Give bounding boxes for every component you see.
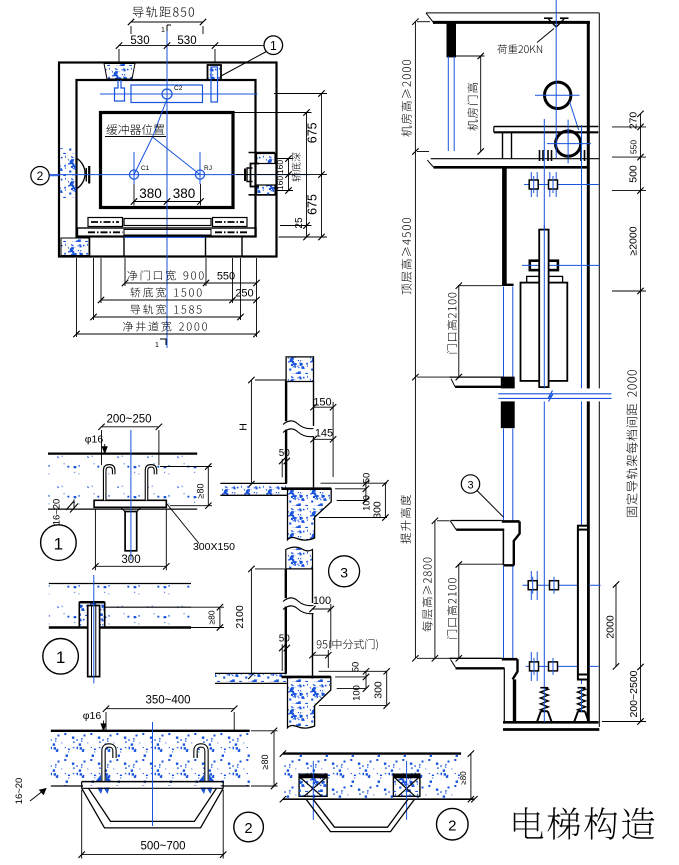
elev: left dim line main — [414, 22, 416, 659]
det1a: J-hook anchor right — [147, 466, 156, 501]
mid: detail circle 3 — [329, 556, 360, 587]
elev: machine room door blue lines — [447, 57, 449, 152]
det2b: embed block right — [393, 774, 420, 796]
plan: counterweight circle C2 — [162, 89, 172, 99]
mid: upper wall lines — [285, 381, 287, 484]
det1a: dim 300 — [94, 509, 96, 570]
elev: dim 机房高>=2000 — [401, 60, 411, 137]
svg-text:160: 160 — [275, 160, 285, 174]
elev: right dim line main — [640, 114, 642, 722]
plan: buffer diagonal lines blue — [153, 99, 168, 137]
svg-text:≥2000: ≥2000 — [628, 226, 640, 255]
det2b: dim >=80 — [470, 754, 472, 800]
mid: upper wall concrete top block — [286, 357, 313, 382]
elev: right outer thin line — [598, 13, 600, 727]
svg-text:50: 50 — [362, 473, 373, 484]
svg-text:100: 100 — [352, 685, 363, 701]
svg-text:1: 1 — [270, 39, 277, 53]
svg-text:550: 550 — [217, 271, 235, 283]
plan: counterweight blue line — [100, 93, 258, 95]
svg-text:675: 675 — [306, 122, 320, 143]
plan: car wall (thick) — [101, 113, 234, 208]
svg-text:3: 3 — [340, 565, 348, 581]
plan: guide rail blue top-right — [211, 67, 218, 102]
elev: car top step — [527, 276, 563, 282]
det1b: concrete band — [49, 585, 191, 628]
plan: circle 2 left — [31, 167, 49, 185]
elev: dim text 固定导轨架每档间距2000 — [626, 370, 637, 517]
plan: dim 净井道宽2000 — [123, 321, 207, 331]
plan: blue vertical centerline — [166, 28, 168, 348]
svg-text:675: 675 — [306, 194, 320, 215]
elev: car crosshead — [530, 261, 558, 270]
svg-text:500: 500 — [628, 165, 640, 183]
plan: concrete patch left wall — [60, 148, 76, 199]
svg-text:≥80: ≥80 — [196, 484, 206, 499]
elev: leader circle 3 — [461, 475, 479, 493]
det2b: concrete band — [283, 755, 461, 799]
svg-text:300: 300 — [373, 681, 385, 699]
plan: right rail shoe bracket — [251, 164, 260, 187]
mid: dim 95 中分式门 — [317, 639, 378, 650]
plan: counterweight blue rect — [131, 85, 203, 103]
elev: car rope blue centerline — [543, 119, 545, 688]
det2a: dim >=80 — [251, 730, 278, 732]
plan: right wall rail bracket — [249, 152, 276, 154]
mid: lower landing slab — [215, 674, 287, 683]
svg-text:100: 100 — [313, 595, 331, 607]
svg-text:270: 270 — [628, 112, 640, 130]
plan: cwt rail shoe left (blue) — [115, 80, 125, 101]
svg-text:RJ: RJ — [204, 165, 212, 172]
det2a: concrete band — [51, 732, 250, 786]
plan: concrete patch bottom-left — [61, 238, 89, 256]
svg-text:300: 300 — [372, 501, 384, 519]
det1b: guide rail bar — [88, 606, 100, 677]
svg-text:50: 50 — [279, 448, 291, 459]
elev: rail clip row low — [526, 665, 599, 667]
elev: hook blue centerline — [555, 0, 557, 62]
plan: label 缓冲器位置 — [106, 124, 164, 135]
det1a: anchor plate 300X150 — [94, 500, 166, 507]
svg-text:1: 1 — [155, 342, 159, 349]
svg-text:380: 380 — [173, 186, 196, 201]
plan: left wall blob arc — [77, 159, 85, 189]
det1b: blue centerline — [93, 575, 95, 683]
elev: lower door blue lines — [503, 566, 505, 658]
plan view: hoistway outer wall — [59, 63, 277, 257]
det2a: detail circle 2 — [234, 812, 264, 842]
svg-text:≥80: ≥80 — [260, 755, 270, 770]
det2a: J-hook left — [104, 746, 115, 782]
plan: buffer stop bars left — [85, 168, 87, 182]
plan: section mark 1 top — [167, 25, 171, 31]
elev: wall segment below top landing — [501, 377, 514, 428]
plan: right dims 675/675 — [274, 93, 327, 95]
svg-text:φ16: φ16 — [83, 710, 102, 722]
elev: machine room floor slab — [431, 158, 600, 160]
svg-text:1: 1 — [54, 535, 63, 554]
plan: bottom dim extensions — [76, 258, 78, 337]
det1b: embedded block — [79, 603, 104, 628]
elev: right shaft wall thick — [587, 21, 590, 723]
plan: concrete patch top-left — [104, 64, 135, 80]
svg-text:C1: C1 — [141, 165, 150, 172]
svg-text:300X150: 300X150 — [193, 541, 235, 553]
plan: dim 25 and car line — [234, 112, 312, 114]
det1a: detail circle 1 — [41, 525, 77, 561]
elev: label 荷重20KN — [497, 44, 542, 54]
elev: rope hole marks — [539, 150, 541, 161]
plan: buffer circle RJ — [195, 170, 204, 179]
elev: dim 每层高>=2800 — [434, 521, 436, 659]
mid: lower wall concrete top block — [286, 547, 313, 569]
elev: car buffer spring — [540, 687, 548, 689]
elev: bottom landing floor slab — [450, 657, 502, 659]
elev: counterweight blue centerline — [581, 125, 583, 684]
det1b: detail circle 1 — [43, 639, 79, 675]
svg-text:2: 2 — [37, 169, 44, 183]
elev: load hook symbol — [544, 17, 553, 19]
svg-text:2100: 2100 — [234, 605, 246, 629]
det1a: concrete band — [48, 455, 197, 509]
elev: counterweight buffer spring — [578, 687, 586, 689]
det2a: blue weld marks right — [199, 775, 215, 782]
plan: rail bracket top-right box — [208, 65, 222, 80]
elev: guide rail blue pair right — [549, 172, 551, 197]
svg-text:200~250: 200~250 — [106, 414, 151, 426]
mid: upper sill nib mass — [288, 489, 332, 540]
det1a: J-hook anchor left — [105, 466, 114, 501]
elev: dim 机房门高 — [455, 55, 485, 57]
plan: buffer circle C1 — [129, 170, 138, 179]
det2a: sill channel — [82, 781, 224, 783]
elev: guide rail blue pair left — [530, 172, 532, 197]
svg-text:500~700: 500~700 — [140, 841, 185, 853]
plan: dim 轿底宽1500 250 — [130, 287, 201, 297]
elev: break band across shaft — [498, 388, 613, 401]
svg-text:145: 145 — [315, 428, 333, 440]
elev: machine room ceiling thick — [433, 21, 590, 24]
mid: lower wall lines — [285, 569, 287, 674]
svg-text:350~400: 350~400 — [145, 695, 190, 707]
mid: upper wall break squiggle — [284, 421, 288, 429]
det2b: blue centerlines — [312, 761, 314, 820]
elev: machine room roof thin line — [426, 12, 599, 14]
elev: mid landing floor slab — [451, 520, 502, 522]
plan view: hoistway inner wall — [77, 80, 256, 237]
mid: dim H — [250, 380, 252, 484]
elev: dim 2000 inner — [615, 585, 617, 667]
svg-text:1: 1 — [161, 27, 165, 34]
elev: upper door blue lines — [503, 287, 505, 378]
det2a: blue weld marks left — [96, 775, 112, 782]
elev: machine room left wall — [448, 22, 456, 56]
svg-text:2000: 2000 — [605, 615, 617, 639]
elev: car body — [521, 283, 568, 381]
svg-text:200~2500: 200~2500 — [628, 670, 640, 717]
det2a: blue centerline — [152, 722, 154, 826]
title: 电梯构造 — [514, 807, 655, 839]
svg-text:2: 2 — [245, 821, 253, 837]
elev: counterweight — [578, 526, 588, 680]
svg-text:150: 150 — [313, 397, 331, 409]
elev: dim 门口高2100 lower — [459, 563, 503, 565]
mid: upper landing slab — [220, 484, 286, 495]
svg-text:2: 2 — [448, 818, 456, 835]
mid: dim 2100 — [250, 569, 252, 676]
svg-text:160: 160 — [275, 176, 285, 190]
plan: top dim 导轨距850 — [133, 6, 194, 17]
svg-text:50: 50 — [279, 634, 291, 645]
plan: blue horizontal centerline — [49, 174, 310, 176]
elev: car sling vertical bar — [539, 230, 548, 388]
det2a: J-hook right — [196, 746, 207, 782]
elev: shaft left wall top section — [502, 167, 507, 284]
elev: dim 顶层高>=4500 — [401, 218, 412, 294]
svg-text:25: 25 — [294, 217, 305, 229]
svg-text:16~20: 16~20 — [52, 499, 63, 526]
det2b: embed block left — [299, 774, 327, 796]
svg-text:50: 50 — [351, 662, 362, 673]
elev: mid door blue lines — [503, 429, 505, 521]
plan: leader circle 1 — [264, 36, 283, 55]
det1b: dim >=80 — [191, 606, 224, 608]
mid: upper sill nib top thick line — [282, 487, 332, 490]
elev: rope diagonal blue — [570, 102, 579, 131]
plan: dim 净门口宽900 550 — [127, 270, 203, 280]
svg-text:≥80: ≥80 — [459, 771, 468, 785]
plan: dim 160 160 — [288, 159, 290, 191]
svg-text:250: 250 — [235, 288, 253, 300]
det2b: detail circle 2 — [437, 808, 469, 840]
svg-text:φ16: φ16 — [85, 434, 104, 446]
svg-text:550: 550 — [629, 140, 639, 154]
svg-text:300: 300 — [121, 554, 140, 566]
plan: door sill assembly row1 — [88, 218, 123, 227]
plan: label 轿底深 vertical — [292, 153, 301, 182]
svg-text:≥80: ≥80 — [207, 610, 217, 624]
elev: machine beam double line — [494, 126, 599, 128]
mid: lower right dim stack — [319, 670, 387, 672]
elev: rail clip row machine level — [524, 184, 599, 186]
elev: top landing floor slab — [450, 376, 504, 378]
svg-text:16~20: 16~20 — [14, 778, 25, 805]
plan: section mark 1 bottom — [160, 339, 166, 345]
elev: beam support legs — [502, 132, 504, 158]
svg-text:1: 1 — [56, 648, 65, 667]
elev: pit left wall — [513, 679, 516, 722]
det1a: blue centerline — [130, 430, 132, 560]
plan: dim 导轨宽1585 — [131, 304, 202, 314]
elev: dim 门口高2100 upper — [458, 285, 502, 287]
plan: door opening blue line — [124, 236, 206, 238]
plan: bottom wall piers — [89, 237, 91, 257]
elev: rail clip row mid — [523, 584, 601, 586]
det2b: sill channel — [306, 799, 415, 831]
elev: pit floor — [503, 721, 599, 724]
mid: upper right dim stack — [321, 482, 388, 484]
mid: lower sill nib top thick line — [282, 676, 331, 679]
svg-text:H: H — [238, 423, 250, 431]
mid: lower sill nib mass — [288, 677, 331, 728]
svg-text:380: 380 — [139, 186, 162, 201]
svg-text:C2: C2 — [174, 85, 183, 92]
svg-text:3: 3 — [467, 480, 473, 492]
mid: lower wall break squiggle — [284, 598, 288, 606]
elev: pulley 2 (deflector sheave) — [556, 131, 581, 156]
elev: dim 提升高度 — [400, 495, 411, 544]
det1a: bracket stem below plate — [121, 507, 126, 513]
plan: door sill assembly row2 — [78, 228, 257, 237]
det1a: dim >=80 — [160, 466, 212, 468]
elev: pulley 1 (traction sheave) — [545, 82, 571, 108]
